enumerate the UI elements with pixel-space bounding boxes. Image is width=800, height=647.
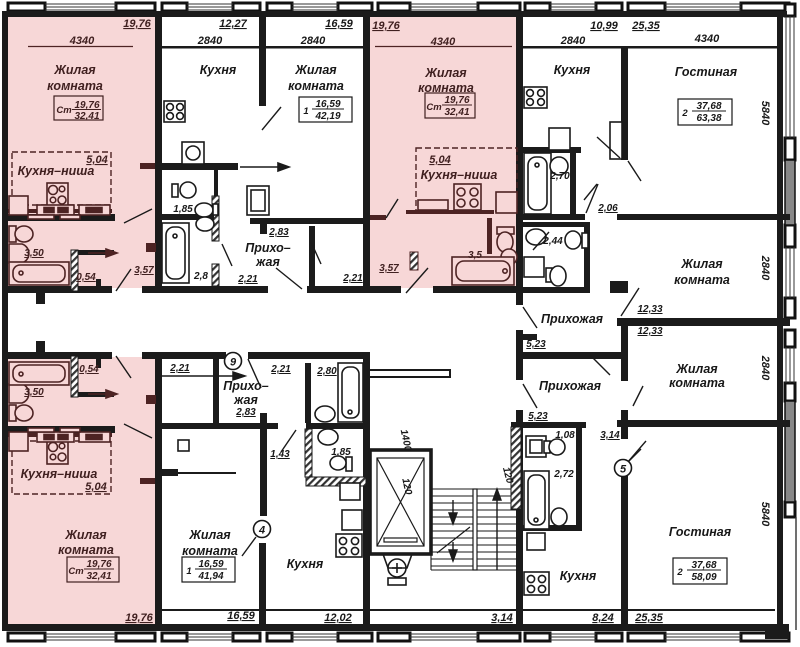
- apt2 wc wall: [487, 218, 492, 254]
- svg-text:Жилая: Жилая: [188, 528, 231, 542]
- svg-text:16,59: 16,59: [227, 610, 255, 622]
- apt2 area box: [425, 93, 475, 118]
- svg-text:41,94: 41,94: [197, 571, 223, 582]
- apt3 bathtub: [9, 362, 69, 385]
- wall B kitchen/living divider top-middle: [259, 17, 266, 106]
- svg-text:63,38: 63,38: [696, 113, 721, 124]
- apt1 fridge: [9, 196, 28, 215]
- circled 5: [615, 460, 632, 477]
- svg-text:19,76: 19,76: [74, 100, 99, 111]
- rightbottom bathtub: [524, 471, 549, 529]
- svg-text:комната: комната: [182, 544, 238, 558]
- stair treads: [431, 489, 519, 570]
- svg-text:4340: 4340: [69, 35, 95, 47]
- elevator door sill symbol: [383, 554, 412, 585]
- top-middle wc east wall hatched: [212, 196, 219, 241]
- svg-text:25,35: 25,35: [634, 612, 663, 624]
- svg-text:Кухня: Кухня: [200, 63, 237, 77]
- outer wall top: [2, 11, 787, 17]
- rightbottom area box: [673, 558, 727, 584]
- elevator shaft outer: [370, 450, 431, 554]
- circled 4: [254, 521, 271, 538]
- apt3 wall appliance notches: [28, 428, 54, 432]
- apt3 counter cabinet 1: [37, 432, 74, 442]
- top-middle hall top wall: [250, 218, 366, 224]
- stair middle rail: [473, 489, 477, 570]
- apt1 entry arrow: [88, 249, 117, 257]
- righttop bath sink: [550, 157, 568, 175]
- apt2 entry door leaf: [406, 268, 428, 293]
- svg-text:3,57: 3,57: [134, 265, 154, 276]
- midbottom kitchen stove: [336, 534, 362, 557]
- svg-text:3,50: 3,50: [24, 248, 44, 259]
- right balcony brackets: [785, 4, 795, 517]
- midbottom entry door leaf: [248, 359, 261, 388]
- rightbottom gostinaya door leaf: [627, 441, 646, 463]
- svg-text:19,76: 19,76: [444, 95, 469, 106]
- righttop bath door leaf: [584, 184, 597, 200]
- stair top pier hatched: [511, 427, 521, 509]
- midbottom closet box: [178, 440, 189, 451]
- apt2 kitchen-niche dashed box: [416, 148, 517, 211]
- svg-text:5840: 5840: [759, 101, 771, 126]
- righttop area box: [678, 99, 732, 125]
- top-middle wc east wall upper: [214, 170, 218, 196]
- svg-text:9: 9: [230, 357, 237, 369]
- svg-text:жая: жая: [255, 255, 280, 269]
- svg-text:5,23: 5,23: [528, 411, 548, 422]
- midbottom entry arrow: [160, 372, 245, 380]
- top-right wc divider: [522, 222, 590, 227]
- svg-text:12,33: 12,33: [637, 304, 662, 315]
- svg-text:4340: 4340: [694, 33, 720, 45]
- bottom-right bath bottom wall: [519, 525, 582, 531]
- midbottom bathtub: [338, 363, 363, 422]
- svg-text:3,14: 3,14: [600, 430, 620, 441]
- svg-text:Жилая: Жилая: [53, 63, 96, 77]
- apt3 kitchen-niche dashed box: [12, 441, 111, 494]
- apt1 toilet: [9, 226, 33, 242]
- svg-text:Кухня: Кухня: [560, 569, 597, 583]
- apt3 fridge: [9, 432, 28, 451]
- bottom-middle hall bottom wall: [162, 423, 278, 429]
- righttop zhilaya door leaf: [621, 288, 639, 316]
- rightbottom zhilaya door leaf: [633, 386, 643, 406]
- svg-text:2: 2: [681, 108, 688, 119]
- apt2 south wall segments: [366, 286, 401, 293]
- apt3 counter edge: [8, 433, 112, 437]
- svg-text:32,41: 32,41: [86, 571, 111, 582]
- apt1 counter cabinet 1: [37, 205, 74, 215]
- midtop kitchen sink: [182, 142, 204, 164]
- midbottom toilet: [330, 456, 352, 471]
- svg-text:2,21: 2,21: [169, 363, 190, 374]
- apt1 wall appliance notches: [28, 215, 54, 219]
- stair up arrow: [493, 489, 501, 570]
- bottom-middle bath bottom wall: [306, 423, 366, 429]
- svg-text:1,08: 1,08: [555, 430, 575, 441]
- svg-text:2840: 2840: [300, 35, 326, 47]
- svg-text:16,59: 16,59: [325, 18, 353, 30]
- svg-text:Жилая: Жилая: [680, 257, 723, 271]
- svg-text:Кухня: Кухня: [287, 557, 324, 571]
- midtop kitchen-living door leaf: [262, 107, 281, 130]
- apt1 entry door leaf: [116, 269, 131, 291]
- apt3 closet door jamb: [96, 359, 101, 368]
- svg-text:комната: комната: [47, 79, 103, 93]
- wall E hall jamb: [621, 410, 628, 427]
- svg-text:Жилая: Жилая: [64, 528, 107, 542]
- midtop wc door leaf: [222, 244, 232, 266]
- apt3 room divider stub: [140, 478, 155, 484]
- svg-text:12,02: 12,02: [324, 612, 352, 624]
- midbottom sink below: [318, 429, 338, 445]
- apartment A2 fill (top-center-right studio): [364, 14, 520, 288]
- svg-text:Прихо–: Прихо–: [223, 379, 269, 393]
- wall D corridor segment 2: [516, 330, 523, 380]
- apartment A3 fill (bottom-left studio): [2, 357, 160, 627]
- svg-text:комната: комната: [669, 376, 725, 390]
- bottom-middle bath west wall: [305, 363, 311, 423]
- apartment A1 fill (top-left studio): [2, 14, 160, 288]
- apt3 toilet: [9, 405, 33, 421]
- righttop room door leaf (2,06): [586, 184, 598, 213]
- svg-text:8,24: 8,24: [592, 612, 613, 624]
- apt3 entry arrow: [88, 390, 117, 398]
- svg-text:1,43: 1,43: [270, 449, 290, 460]
- corridor top wall segments: [2, 286, 112, 293]
- svg-text:2840: 2840: [197, 35, 223, 47]
- apt3 wall A pier: [146, 395, 156, 404]
- svg-text:Кухня–ниша: Кухня–ниша: [421, 168, 498, 182]
- svg-text:2: 2: [676, 567, 683, 578]
- wall A lower (apt3 east): [155, 357, 162, 624]
- svg-text:58,09: 58,09: [691, 572, 716, 583]
- svg-text:1,85: 1,85: [331, 447, 351, 458]
- apt1 room divider stub: [140, 163, 155, 169]
- apt1 kitchen-niche dashed box: [12, 152, 111, 205]
- midtop kitchen stove: [164, 101, 185, 122]
- righttop bathtub: [524, 153, 551, 214]
- bottom-middle closet east wall: [213, 359, 219, 423]
- svg-text:0,54: 0,54: [79, 364, 99, 375]
- wall B bottom lower segment: [259, 543, 266, 624]
- apt3 bath pier hatched: [71, 356, 78, 397]
- apt3 kitchen/bath wall: [2, 426, 115, 433]
- svg-text:2,72: 2,72: [553, 469, 574, 480]
- wall C apt2 west: [363, 17, 370, 286]
- top-middle closet west wall: [309, 226, 315, 286]
- midtop bathtub: [162, 223, 189, 283]
- outer wall right: [777, 11, 783, 624]
- apt1 wc sink: [9, 244, 29, 263]
- svg-text:32,41: 32,41: [74, 111, 99, 122]
- svg-text:1: 1: [186, 566, 191, 577]
- rightbottom kitchen stove: [524, 572, 549, 595]
- midbottom sink above: [315, 406, 335, 422]
- midtop hall wardrobe: [247, 186, 269, 215]
- top-right bath top wall: [522, 147, 581, 153]
- svg-text:32,41: 32,41: [444, 107, 469, 118]
- midtop entry arrow: [240, 163, 289, 171]
- righttop wc door leaf: [533, 232, 549, 250]
- apt1 stove: [47, 183, 68, 207]
- top-right bath east wall: [570, 147, 576, 216]
- svg-text:2,83: 2,83: [235, 407, 256, 418]
- stair down arrows with break: [437, 500, 470, 561]
- righttop kitchen door leaf: [597, 137, 641, 181]
- righttop washer: [524, 257, 544, 277]
- wall E kitchen/livingroom top-right: [621, 48, 628, 160]
- corridor vent shaft top: [36, 293, 45, 304]
- svg-text:2,8: 2,8: [193, 271, 208, 282]
- top-middle wc bottom wall: [162, 214, 214, 220]
- wall D spine upper: [516, 17, 523, 286]
- rightbottom hall door leaf: [590, 355, 610, 375]
- midtop closet door leaf: [311, 242, 321, 264]
- wall D hall stub: [523, 334, 537, 340]
- svg-text:10,99: 10,99: [590, 20, 618, 32]
- right outer thin edge line: [795, 517, 797, 630]
- svg-text:Жилая: Жилая: [675, 362, 718, 376]
- svg-text:12,27: 12,27: [219, 18, 247, 30]
- apt2 sink: [501, 249, 517, 265]
- svg-text:2,21: 2,21: [237, 274, 258, 285]
- svg-text:2,06: 2,06: [597, 203, 618, 214]
- apt3 stove: [47, 440, 68, 464]
- svg-text:комната: комната: [58, 543, 114, 557]
- apt1 closet door jamb: [96, 279, 101, 288]
- top balcony railing lines: [45, 4, 741, 10]
- midtop wc sink2: [196, 217, 214, 231]
- wall D corridor segment 1: [516, 286, 523, 305]
- svg-text:Прихожая: Прихожая: [539, 379, 602, 393]
- apt3 closet top wall: [78, 392, 114, 397]
- svg-text:Прихо–: Прихо–: [245, 241, 291, 255]
- righttop entry door leaf: [523, 307, 537, 328]
- right balcony railing lines: [786, 16, 794, 383]
- midtop wc sink1: [195, 203, 218, 217]
- bottom-right bath east wall: [576, 425, 582, 529]
- svg-text:Гостиная: Гостиная: [675, 65, 738, 79]
- apt1 closet top wall: [78, 250, 114, 255]
- bottom balcony railing lines: [45, 634, 741, 640]
- svg-text:2840: 2840: [560, 35, 586, 47]
- wall A apt1/kitchen divider: [155, 17, 162, 286]
- midbottom fridge: [342, 510, 362, 530]
- svg-text:19,76: 19,76: [125, 612, 153, 624]
- svg-text:16,59: 16,59: [315, 99, 340, 110]
- rightbottom wc toilet: [544, 439, 565, 455]
- svg-text:2,70: 2,70: [549, 171, 570, 182]
- wall B stub at hall: [260, 224, 267, 234]
- svg-text:Жилая: Жилая: [294, 63, 337, 77]
- svg-text:Кухня: Кухня: [554, 63, 591, 77]
- svg-text:5: 5: [620, 464, 627, 476]
- apt3 entry door leaf: [116, 356, 131, 378]
- wall B bottom upper segment: [260, 413, 267, 516]
- svg-text:Ст: Ст: [426, 102, 442, 113]
- righttop cabinet: [610, 122, 622, 159]
- top-middle wc east wall jamb: [212, 264, 219, 286]
- svg-text:37,68: 37,68: [696, 101, 721, 112]
- svg-text:комната: комната: [288, 79, 344, 93]
- svg-text:Ст: Ст: [56, 105, 72, 116]
- svg-text:19,76: 19,76: [123, 18, 151, 30]
- bottom-middle living top wall: [162, 469, 178, 476]
- midbottom hall door leaf: [281, 430, 296, 452]
- rightbottom entry door leaf: [523, 384, 537, 408]
- svg-text:3,50: 3,50: [24, 387, 44, 398]
- apt2 counter edge: [406, 210, 494, 214]
- outer wall left: [2, 11, 8, 631]
- middle/right section inner bottom line: [162, 609, 775, 611]
- wall E hall segment: [621, 326, 628, 381]
- svg-text:12,33: 12,33: [637, 326, 662, 337]
- apt2 counter appliance: [418, 200, 448, 210]
- apt2 room divider stub: [370, 215, 386, 220]
- apt1 counter cabinet 2: [79, 205, 110, 215]
- apt1 bath pier hatched: [71, 250, 78, 291]
- apt3 wc sink: [9, 384, 29, 403]
- svg-text:37,68: 37,68: [691, 560, 716, 571]
- righttop kitchen stove: [524, 87, 547, 108]
- apt3 room door leaf: [124, 424, 152, 438]
- apt1 kitchen/bath wall: [2, 214, 115, 221]
- svg-text:2,83: 2,83: [268, 227, 289, 238]
- landing railing: [368, 370, 450, 377]
- apt2 toilet: [497, 227, 514, 252]
- svg-text:Прихожая: Прихожая: [541, 312, 604, 326]
- bottom-middle kitchen north wall hatched: [306, 477, 366, 486]
- top-middle apt: kitchen south wall: [162, 163, 238, 170]
- svg-text:Кухня–ниша: Кухня–ниша: [18, 164, 95, 178]
- apt2 room door leaf: [386, 199, 398, 218]
- svg-text:жая: жая: [233, 393, 258, 407]
- apt2 stove: [454, 184, 481, 210]
- midtop area box: [299, 97, 352, 122]
- right rooms divider y318: [617, 318, 790, 326]
- corridor bottom wall segments: [2, 352, 112, 359]
- rightbottom washer: [527, 533, 545, 550]
- apt2 bathtub: [452, 257, 514, 285]
- circled5 pointer: [629, 449, 641, 461]
- svg-text:5,23: 5,23: [526, 339, 546, 350]
- svg-text:25,35: 25,35: [631, 20, 660, 32]
- midtop entry door leaf: [276, 268, 302, 289]
- rightbottom bath sink: [551, 508, 567, 526]
- midbottom living door leaf: [242, 537, 256, 556]
- svg-text:5840: 5840: [759, 502, 771, 527]
- outer wall bottom: [2, 624, 789, 631]
- svg-text:2,44: 2,44: [542, 236, 563, 247]
- bottom-middle wc west wall hatched: [305, 429, 312, 477]
- svg-text:1,85: 1,85: [173, 204, 193, 215]
- svg-text:16,59: 16,59: [198, 559, 223, 570]
- apt1 area box: [54, 96, 103, 122]
- elevator cab with cross: [377, 458, 424, 546]
- svg-text:2,21: 2,21: [270, 364, 291, 375]
- svg-text:2,80: 2,80: [316, 366, 337, 377]
- top-right hall bottom wall: [518, 352, 628, 359]
- svg-text:42,19: 42,19: [314, 111, 340, 122]
- svg-text:Жилая: Жилая: [424, 66, 467, 80]
- top-right section inner top line: [522, 46, 777, 49]
- svg-text:0,54: 0,54: [76, 272, 96, 283]
- apt1 counter edge: [8, 209, 112, 213]
- svg-text:комната: комната: [674, 273, 730, 287]
- righttop fridge: [549, 128, 570, 150]
- svg-text:2840: 2840: [759, 255, 771, 281]
- svg-text:1: 1: [303, 106, 308, 117]
- svg-text:3,14: 3,14: [491, 612, 512, 624]
- svg-text:3,5: 3,5: [468, 250, 482, 261]
- midtop wc toilet: [172, 182, 196, 198]
- svg-text:5,04: 5,04: [429, 154, 450, 166]
- apt2 entry jamb: [410, 252, 418, 270]
- svg-text:5,04: 5,04: [85, 481, 106, 493]
- wall C stairwell west: [363, 352, 370, 624]
- top-right hall south wall segments: [522, 287, 584, 293]
- svg-text:Гостиная: Гостиная: [669, 525, 732, 539]
- top balcony/window brackets: [8, 3, 789, 11]
- apt1 room door leaf: [124, 209, 152, 223]
- svg-text:19,76: 19,76: [372, 20, 400, 32]
- svg-text:Ст: Ст: [68, 566, 84, 577]
- apt3 area box: [67, 557, 119, 582]
- bottom-right zhilaya bottom wall y420: [617, 420, 790, 427]
- apt3 counter cabinet 2: [79, 432, 110, 442]
- apt2 fridge: [496, 192, 517, 213]
- middle section inner top line: [162, 46, 363, 49]
- pink apartment fills: [2, 14, 520, 627]
- svg-text:2840: 2840: [759, 355, 771, 381]
- righttop wc toilet: [565, 231, 588, 249]
- bottom balcony/window brackets: [8, 633, 789, 641]
- midbottom area box: [182, 557, 235, 582]
- svg-text:19,76: 19,76: [86, 559, 111, 570]
- wall E bottom seg2: [621, 465, 628, 624]
- bottom-right bath top wall: [511, 422, 586, 428]
- righttop toilet2: [546, 266, 566, 286]
- circled 9: [225, 353, 242, 370]
- wall D lower: [516, 410, 523, 624]
- top-right wc east wall: [584, 222, 590, 293]
- svg-text:3,57: 3,57: [379, 263, 399, 274]
- apt1 bathtub: [9, 262, 69, 285]
- wall E bottom seg1: [621, 427, 628, 439]
- svg-text:Кухня–ниша: Кухня–ниша: [21, 467, 98, 481]
- corridor vent shaft bottom: [36, 341, 45, 352]
- apt1 wall A pier: [146, 243, 156, 252]
- right apt: wall between kitchen+hall and gostinaya rooms y214: [522, 214, 585, 220]
- svg-text:4: 4: [258, 525, 265, 537]
- righttop wc sink: [526, 229, 546, 245]
- svg-text:2,21: 2,21: [342, 273, 363, 284]
- midbottom water heater: [340, 483, 360, 500]
- right balcony side walls (solid): [785, 160, 795, 502]
- rightbottom wc washer: [526, 436, 546, 457]
